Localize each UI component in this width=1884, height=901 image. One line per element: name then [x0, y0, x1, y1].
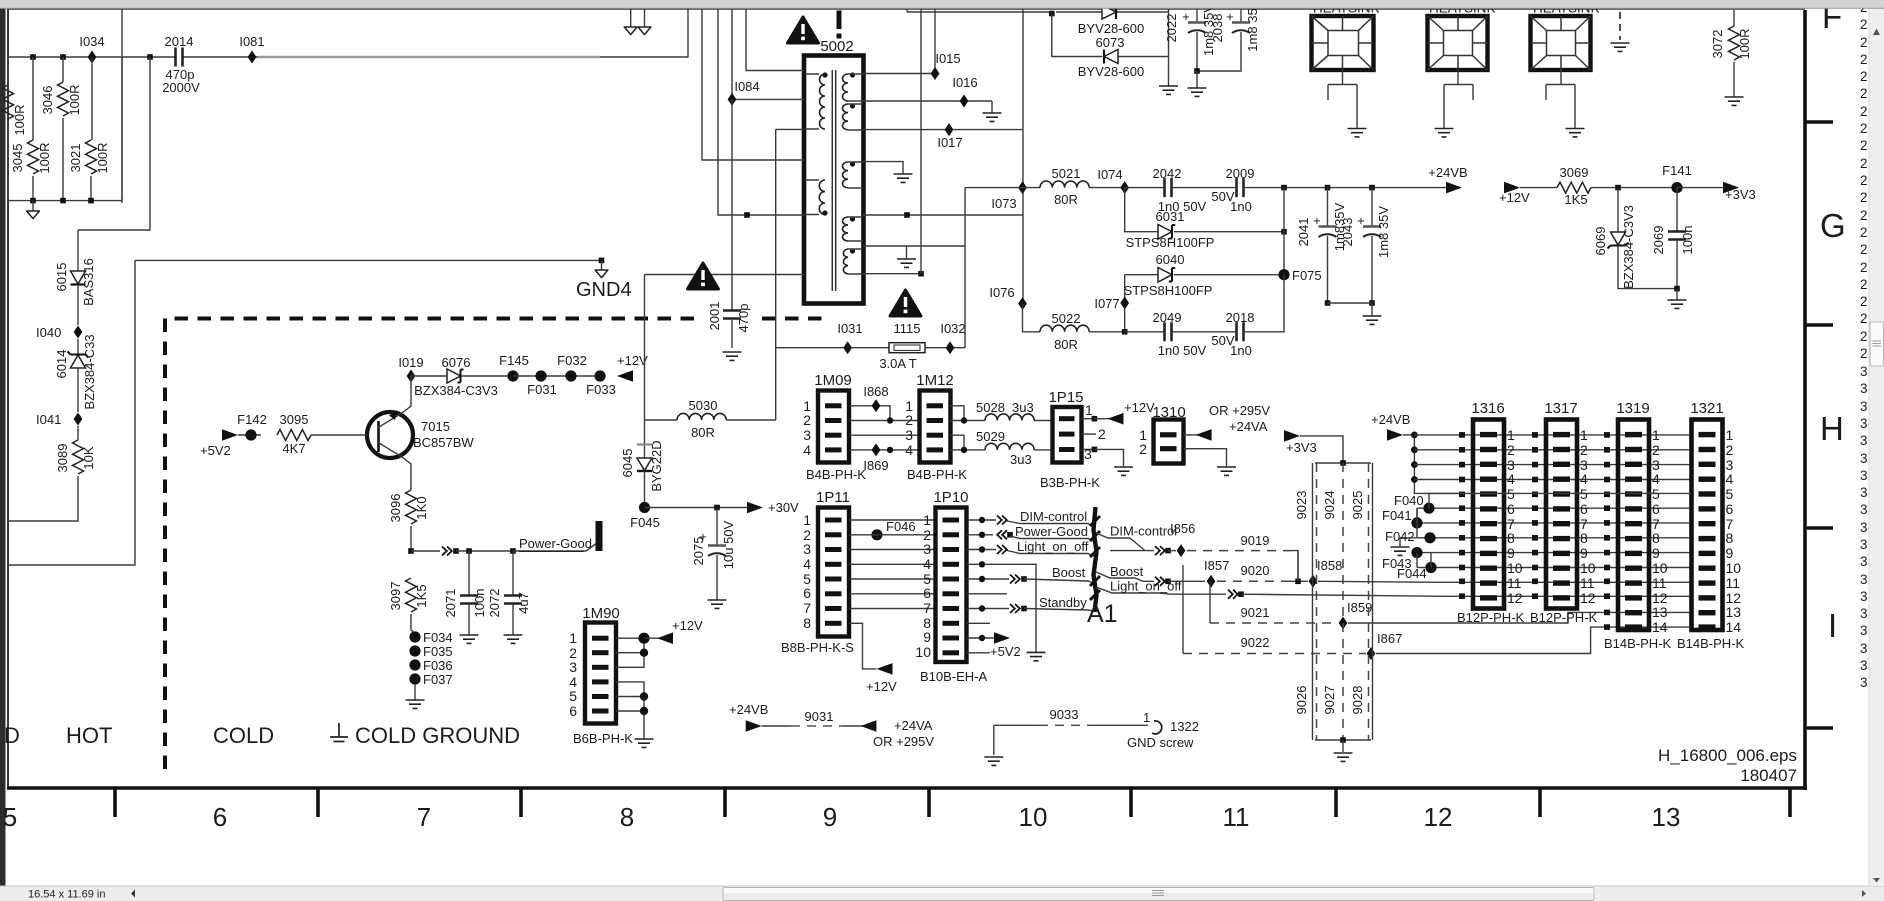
capacitor 2001 470p [707, 99, 751, 348]
wire secondary y=101 to I016 and ground [863, 100, 992, 102]
svg-text:3095: 3095 [280, 412, 309, 427]
node F145 [499, 353, 529, 382]
svg-text:F037: F037 [423, 672, 453, 687]
svg-text:3u3: 3u3 [1012, 400, 1034, 415]
+30V arrow [645, 500, 800, 515]
svg-text:3046: 3046 [40, 86, 55, 115]
svg-text:100R: 100R [67, 84, 82, 115]
svg-text:2: 2 [1860, 86, 1868, 101]
node F041 [1382, 508, 1691, 529]
wire 9020 dashed [1217, 563, 1308, 584]
wire rows 5-10 [1417, 493, 1691, 567]
svg-text:+: + [1222, 13, 1237, 21]
capacitor 2049 1n0 50V [1125, 310, 1235, 358]
node F031 [513, 370, 600, 397]
wire 1M90 pins 1-3 [616, 633, 650, 668]
capacitor 2038 1m8 35V [1197, 8, 1260, 71]
svg-text:1m8 35: 1m8 35 [1245, 8, 1260, 51]
svg-text:6: 6 [1580, 501, 1588, 517]
earth arrows top [624, 8, 651, 35]
svg-text:2: 2 [1726, 442, 1734, 458]
svg-text:4: 4 [1726, 471, 1734, 487]
node I032 [925, 321, 966, 354]
wire 1M09 pin2 [849, 417, 919, 423]
wire collector to I019 [402, 376, 411, 413]
transformer 5002 body [804, 38, 864, 304]
diode BYV28-600 upper (clipped) [1056, 5, 1169, 36]
svg-text:3: 3 [569, 659, 577, 675]
node I074 [1097, 167, 1129, 194]
pin squares col 1317 [1532, 432, 1538, 599]
wire 1P15 pin2 stub [1082, 426, 1107, 442]
capacitor 2018 50V 1n0 [1211, 275, 1284, 358]
svg-text:+24VB: +24VB [1428, 165, 1467, 180]
svg-text:2: 2 [803, 412, 811, 428]
svg-text:BZX384-C3V3: BZX384-C3V3 [414, 383, 498, 398]
wire 1P10 pin8 stub [967, 622, 990, 624]
capacitor 2072 4u7 [487, 551, 531, 643]
svg-text:6076: 6076 [442, 355, 471, 370]
svg-text:2: 2 [1860, 294, 1868, 309]
svg-text:3: 3 [1860, 623, 1868, 638]
junction on bus [30, 54, 153, 60]
node I081 [239, 34, 264, 64]
svg-text:13: 13 [1726, 604, 1742, 620]
diode 6073 BYV28-600 lower [1052, 14, 1169, 80]
svg-text:+: + [1353, 217, 1368, 225]
svg-text:2: 2 [1860, 190, 1868, 205]
wire 1M09 pin3 [849, 434, 919, 436]
resistor 3095 4K7 [277, 412, 367, 456]
svg-text:F044: F044 [1397, 566, 1427, 581]
svg-text:9024: 9024 [1322, 491, 1337, 520]
capacitor 2042 1n0 50V [1125, 166, 1235, 214]
svg-text:11: 11 [1726, 575, 1741, 591]
svg-text:4K7: 4K7 [282, 441, 305, 456]
left page border (clipped) [7, 8, 9, 789]
+24VB arrow 9031 [729, 702, 768, 732]
svg-text:3021: 3021 [68, 144, 83, 173]
svg-text:12: 12 [1580, 590, 1596, 606]
svg-text:6: 6 [1726, 501, 1734, 517]
heatsink 2 [1428, 1, 1496, 137]
svg-text:9022: 9022 [1241, 635, 1270, 650]
svg-text:3: 3 [1860, 537, 1868, 552]
svg-text:1: 1 [923, 512, 931, 528]
svg-text:A1: A1 [1087, 600, 1118, 628]
node F032 [557, 353, 587, 382]
wire primary y=215 with junction [718, 8, 804, 218]
svg-text:80R: 80R [1054, 337, 1078, 352]
svg-text:F041: F041 [1382, 508, 1412, 523]
svg-text:2: 2 [1860, 104, 1868, 119]
svg-text:I856: I856 [1170, 521, 1195, 536]
pin squares col 1319 [1604, 432, 1610, 630]
junction caps bottom + ground [1325, 300, 1382, 324]
wire I073 left link [965, 187, 1023, 189]
wire primary y=160 [702, 8, 804, 160]
ground under 2001 [723, 352, 742, 360]
svg-text:2: 2 [1860, 173, 1868, 188]
transformer secondary winding 2 [842, 103, 863, 130]
node F046 [871, 519, 915, 540]
wire 1310 pin2 to ground [1184, 449, 1237, 476]
svg-text:13: 13 [1652, 604, 1668, 620]
svg-text:+: + [695, 533, 710, 541]
svg-text:2049: 2049 [1153, 310, 1182, 325]
svg-text:3: 3 [1860, 520, 1868, 535]
wire 9022 dashed [1183, 565, 1366, 654]
transformer secondary winding 1 [843, 72, 864, 101]
wire I859 to row13 [1348, 612, 1691, 623]
wire secondary y=73.5 to I015 [863, 73, 935, 75]
svg-text:3: 3 [1860, 485, 1868, 500]
svg-text:I858: I858 [1317, 558, 1342, 573]
svg-text:11: 11 [1652, 575, 1667, 591]
svg-text:STPS8H100FP: STPS8H100FP [1124, 283, 1213, 298]
svg-text:6014: 6014 [54, 350, 69, 379]
node I034 [79, 34, 104, 64]
svg-text:I076: I076 [989, 285, 1014, 300]
capacitor 2071 100n [443, 551, 487, 643]
svg-text:5: 5 [3, 802, 17, 832]
svg-text:+3V3: +3V3 [1725, 187, 1756, 202]
svg-text:OR +295V: OR +295V [873, 734, 934, 749]
svg-text:4: 4 [923, 556, 931, 572]
svg-text:3: 3 [1860, 589, 1868, 604]
svg-text:6069: 6069 [1593, 227, 1608, 256]
svg-text:14: 14 [1726, 619, 1742, 635]
svg-text:16.54 x 11.69 in: 16.54 x 11.69 in [28, 889, 105, 901]
svg-text:1322: 1322 [1170, 719, 1199, 734]
connector 1319 B14B-PH-K [1604, 400, 1672, 651]
node F045 [630, 502, 660, 530]
node F036 [409, 658, 452, 673]
svg-text:1M09: 1M09 [814, 372, 852, 389]
node I015 [931, 8, 961, 80]
svg-text:9031: 9031 [805, 709, 834, 724]
svg-text:10: 10 [1019, 802, 1048, 832]
border row ticks [1805, 122, 1833, 728]
svg-text:2: 2 [1860, 35, 1868, 50]
svg-text:2: 2 [1860, 346, 1868, 361]
svg-text:2: 2 [1860, 208, 1868, 223]
inductor 5021 80R [1023, 166, 1125, 207]
svg-text:1K0: 1K0 [414, 496, 429, 519]
svg-text:11: 11 [1507, 575, 1522, 591]
svg-text:I074: I074 [1097, 167, 1122, 182]
svg-text:BC857BW: BC857BW [413, 435, 474, 450]
svg-text:1: 1 [1085, 402, 1093, 418]
svg-text:10: 10 [1507, 560, 1523, 576]
wire 1P15 pin3 to ground [1082, 446, 1134, 475]
svg-text:5029: 5029 [976, 429, 1005, 444]
wire 6031 out junction [1281, 188, 1287, 275]
svg-text:8: 8 [1507, 530, 1515, 546]
svg-text:I034: I034 [79, 34, 104, 49]
wire secondary y=273.7 [863, 271, 924, 277]
wire x=921 top [920, 8, 922, 274]
capacitor 2075 10u 50V [691, 508, 736, 601]
svg-text:2: 2 [1860, 242, 1868, 257]
svg-text:2: 2 [1652, 442, 1660, 458]
+12V arrow 1M90 [644, 618, 703, 644]
svg-text:3045: 3045 [10, 144, 25, 173]
wire primary stub y=129.4 [776, 128, 804, 130]
svg-text:1K5: 1K5 [1564, 192, 1587, 207]
wire emitter down [402, 457, 411, 490]
node I076 [989, 285, 1027, 310]
svg-text:9033: 9033 [1050, 707, 1079, 722]
svg-text:1: 1 [569, 630, 577, 646]
wire main top bus y=57 [8, 8, 688, 57]
node I016 [952, 75, 977, 108]
svg-text:1: 1 [803, 512, 811, 528]
wire 1P10 pin4 to ground [967, 561, 1046, 661]
capacitor 2022 1m8 35V [1164, 4, 1216, 71]
svg-text:7: 7 [803, 600, 811, 616]
svg-text:2: 2 [1860, 69, 1868, 84]
svg-text:2: 2 [1860, 52, 1868, 67]
svg-text:3069: 3069 [1560, 165, 1589, 180]
svg-text:9025: 9025 [1350, 491, 1365, 520]
svg-text:3: 3 [923, 541, 931, 557]
wire 1P10 pin7 Standby [967, 595, 1094, 613]
svg-text:3: 3 [1860, 468, 1868, 483]
wire rows 1-4 to connectors [1414, 435, 1691, 480]
svg-text:10: 10 [1726, 560, 1742, 576]
diode 6015 BAS316 [54, 230, 96, 325]
node F043 [1382, 547, 1691, 571]
svg-text:6: 6 [923, 585, 931, 601]
connector 1317 B12P-PH-K [1530, 400, 1598, 625]
svg-text:9: 9 [823, 802, 837, 832]
svg-text:H_16800_006.eps: H_16800_006.eps [1658, 746, 1797, 765]
svg-text:2: 2 [1580, 442, 1588, 458]
svg-text:2: 2 [905, 412, 913, 428]
svg-text:6040: 6040 [1156, 252, 1185, 267]
svg-text:1n0: 1n0 [1230, 343, 1252, 358]
wire primary top feed [746, 8, 804, 71]
svg-text:3: 3 [1860, 451, 1868, 466]
svg-text:+12V: +12V [1499, 190, 1530, 205]
svg-text:8: 8 [1726, 530, 1734, 546]
svg-text:10: 10 [1652, 560, 1668, 576]
wire x=907 top [906, 8, 908, 12]
transformer primary winding lower [805, 180, 828, 216]
wire 9033 dashed [994, 707, 1148, 725]
svg-text:2009: 2009 [1226, 166, 1255, 181]
svg-text:I015: I015 [935, 51, 960, 66]
svg-text:1P11: 1P11 [816, 489, 850, 506]
svg-text:12: 12 [1424, 802, 1453, 832]
wire 1P10 pin3 Light_on_off [967, 539, 1094, 556]
svg-text:I081: I081 [239, 34, 264, 49]
node I857 [1204, 558, 1229, 588]
svg-text:1M90: 1M90 [582, 605, 620, 622]
wire 1P10 pin1 DIM-control [967, 509, 1094, 527]
connector 1310 [1139, 404, 1185, 464]
wire primary y=275 to 6045 column [645, 274, 805, 276]
connector 1316 B12P-PH-K [1457, 400, 1525, 625]
svg-text:2: 2 [1860, 17, 1868, 32]
ground on y246 wire [897, 246, 916, 267]
capacitor 2069 100n [1651, 188, 1695, 289]
top chrome overlay [0, 0, 1884, 8]
+3V3 arrow [1677, 182, 1756, 202]
svg-text:COLD: COLD [213, 723, 274, 748]
svg-text:2018: 2018 [1226, 310, 1255, 325]
svg-text:1: 1 [1580, 427, 1588, 443]
inductor 5028 3u3 [976, 400, 1052, 421]
svg-text:DIM-control: DIM-control [1020, 509, 1087, 524]
svg-text:GND4: GND4 [576, 279, 632, 301]
svg-text:1P15: 1P15 [1048, 389, 1083, 406]
svg-text:100R: 100R [37, 142, 52, 173]
svg-text:I073: I073 [991, 196, 1016, 211]
svg-text:+12V: +12V [672, 618, 703, 633]
svg-text:1310: 1310 [1152, 404, 1185, 421]
svg-text:6015: 6015 [54, 263, 69, 292]
svg-text:+12V: +12V [617, 353, 648, 368]
exclamation mark [837, 11, 842, 39]
svg-text:2: 2 [1860, 225, 1868, 240]
svg-text:2042: 2042 [1153, 166, 1182, 181]
svg-text:10: 10 [1580, 560, 1596, 576]
svg-text:I040: I040 [36, 325, 61, 340]
svg-text:I868: I868 [863, 384, 888, 399]
junctions on +24VB rail [1281, 185, 1375, 191]
svg-text:1: 1 [1507, 427, 1515, 443]
resistor 3069 1K5 [1557, 165, 1677, 207]
warning triangle mid [688, 263, 719, 289]
svg-text:10u 50V: 10u 50V [721, 520, 736, 569]
svg-text:8: 8 [803, 615, 811, 631]
svg-text:BYV28-600: BYV28-600 [1078, 21, 1145, 36]
+24VA arrow [860, 718, 934, 749]
wire 9021 dashed [1210, 581, 1338, 623]
bottom ruler ticks [115, 788, 1790, 817]
warning triangle lower [890, 290, 921, 316]
ground under F037 [406, 684, 425, 708]
svg-text:F046: F046 [886, 519, 916, 534]
svg-text:6031: 6031 [1156, 209, 1185, 224]
diode 6031 STPS8H100FP [1125, 188, 1284, 250]
svg-text:B6B-PH-K: B6B-PH-K [573, 731, 633, 746]
svg-text:2072: 2072 [487, 589, 502, 618]
svg-text:9027: 9027 [1322, 686, 1337, 715]
svg-text:100n: 100n [1680, 226, 1695, 255]
node I077 [1094, 275, 1129, 332]
node I084 [728, 8, 804, 106]
node F044 [1397, 562, 1691, 581]
svg-text:6: 6 [1507, 501, 1515, 517]
svg-text:1: 1 [1726, 427, 1734, 443]
node F033 [586, 370, 616, 397]
svg-text:F034: F034 [423, 630, 453, 645]
wire 1M12 pin3+4 to coil 5029 [951, 435, 986, 453]
wire 1P11 pin8 to +12V [849, 623, 897, 694]
svg-text:9021: 9021 [1241, 605, 1270, 620]
resistor 3046 100R [40, 57, 82, 201]
dashed links 9023/9024/9025 [1294, 460, 1373, 740]
node I031 [776, 321, 889, 354]
svg-text:I031: I031 [837, 321, 862, 336]
svg-text:Boost: Boost [1052, 565, 1086, 580]
wire 1P10 pin5 Boost [967, 565, 1094, 584]
svg-text:I017: I017 [937, 135, 962, 150]
connector 1M09 B4B-PH-K [803, 372, 866, 482]
svg-text:6: 6 [1652, 501, 1660, 517]
+12V arrow right of F033 [617, 353, 648, 382]
node I073 [991, 181, 1027, 211]
svg-text:9019: 9019 [1241, 533, 1270, 548]
svg-text:+24VB: +24VB [729, 702, 768, 717]
transformer secondary winding 3 [842, 161, 863, 188]
svg-text:13: 13 [1652, 802, 1681, 832]
inductor 5030 80R [645, 398, 776, 440]
svg-text:G: G [1820, 207, 1846, 244]
svg-text:COLD GROUND: COLD GROUND [355, 723, 520, 748]
svg-text:I: I [1828, 607, 1837, 644]
svg-text:80R: 80R [691, 425, 715, 440]
svg-text:3: 3 [1860, 606, 1868, 621]
svg-text:4: 4 [1580, 471, 1588, 487]
svg-text:F036: F036 [423, 658, 453, 673]
svg-text:+3V3: +3V3 [1286, 440, 1317, 455]
svg-text:3: 3 [1084, 446, 1092, 462]
svg-text:2: 2 [1860, 329, 1868, 344]
junction + ground under 2022 [1188, 68, 1207, 96]
svg-text:+: + [1178, 13, 1193, 21]
wire 9031 dashed [762, 709, 877, 726]
svg-text:2001: 2001 [707, 302, 722, 331]
Power-Good label + flag [513, 521, 603, 552]
svg-text:BYV28-600: BYV28-600 [1078, 64, 1145, 79]
svg-text:6: 6 [213, 802, 227, 832]
inductor 5029 3u3 [976, 429, 1052, 467]
svg-text:11: 11 [1223, 802, 1250, 832]
wire 1310 pin1 to +24VA arrow [1184, 403, 1271, 441]
resistor 3021 100R [68, 57, 110, 201]
wire 1P10 pin6 stub [967, 593, 1007, 595]
node I867 [1367, 631, 1403, 660]
svg-text:+: + [1309, 217, 1324, 225]
svg-text:100R: 100R [95, 142, 110, 173]
svg-text:I867: I867 [1377, 631, 1402, 646]
wire secondary y=246 with ground to x965 [863, 188, 965, 246]
top grey bar [0, 0, 1884, 8]
node F034 [409, 630, 452, 645]
svg-text:3: 3 [1860, 381, 1868, 396]
dashed box bottom junction + ground [1315, 737, 1371, 761]
svg-text:Boost: Boost [1110, 564, 1144, 579]
A1 bus bar [1087, 507, 1118, 628]
svg-text:B3B-PH-K: B3B-PH-K [1040, 475, 1100, 490]
svg-text:I041: I041 [36, 412, 61, 427]
svg-text:8: 8 [620, 802, 634, 832]
svg-text:5030: 5030 [689, 398, 718, 413]
svg-text:3: 3 [905, 427, 913, 443]
wire 9019 dashed [1187, 533, 1298, 581]
node I868 [849, 384, 890, 421]
svg-text:4: 4 [803, 442, 811, 458]
+5V2 arrow [200, 429, 238, 458]
svg-text:3: 3 [1860, 641, 1868, 656]
svg-text:3: 3 [1860, 658, 1868, 673]
+24VB arrow [1371, 412, 1414, 441]
wire vertical x=150 down to diode chain [78, 57, 150, 230]
